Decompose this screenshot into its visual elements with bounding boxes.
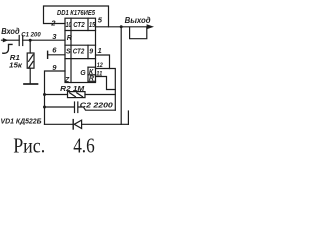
- svg-text:G: G: [80, 70, 86, 77]
- node junction C1/R1: [29, 39, 32, 42]
- capacitor C1: [18, 36, 20, 46]
- IC divider cell K: [88, 66, 96, 68]
- svg-text:15: 15: [89, 22, 95, 29]
- capacitor C2: [74, 102, 76, 113]
- svg-text:1: 1: [98, 46, 102, 55]
- wire bus to VD1: [45, 123, 73, 125]
- output pulse waveform: [130, 27, 147, 38]
- IC DD1 body: [65, 18, 96, 82]
- IC divider vertical left column: [70, 18, 72, 82]
- svg-text:6: 6: [52, 46, 57, 55]
- IC divider row1: [65, 30, 96, 32]
- node junction bus C2: [43, 106, 46, 109]
- wire VD1 to right corner: [82, 123, 129, 125]
- wire pin 2 loop over IC to output: [44, 6, 109, 27]
- wire pin 12 down to RC node: [96, 69, 116, 111]
- wire pin 1: [96, 55, 110, 69]
- resistor R1: [27, 53, 34, 68]
- wire output down to VD1: [120, 27, 122, 125]
- svg-text:4.6: 4.6: [73, 133, 95, 157]
- pin 6 terminal bar: [47, 51, 49, 58]
- wire bus to C2: [45, 106, 75, 108]
- svg-text:СТ2: СТ2: [73, 22, 85, 29]
- output arrow: [147, 24, 154, 29]
- wire pin 6: [48, 54, 65, 56]
- svg-text:15к: 15к: [9, 62, 23, 69]
- wire bus to R2: [45, 94, 68, 96]
- IC divider cell R: [88, 74, 96, 76]
- wire R1 to ground: [29, 68, 31, 83]
- wire input horizontal: [2, 39, 20, 41]
- input arrow: [3, 38, 9, 42]
- svg-text:VD1 КД522Б: VD1 КД522Б: [1, 116, 42, 125]
- svg-text:С1 200: С1 200: [21, 32, 41, 39]
- svg-text:R: R: [67, 35, 72, 42]
- svg-text:Выход: Выход: [125, 16, 151, 25]
- svg-text:10: 10: [66, 22, 72, 29]
- input common hook: [3, 44, 12, 53]
- node junction output: [120, 25, 123, 28]
- svg-text:Рис.: Рис.: [13, 133, 45, 157]
- svg-text:Вход: Вход: [1, 27, 19, 36]
- svg-text:S: S: [66, 49, 71, 56]
- svg-text:R: R: [89, 76, 94, 83]
- svg-text:9: 9: [89, 49, 93, 56]
- IC divider row2: [65, 44, 96, 46]
- IC divider vertical right column bottom: [87, 45, 89, 58]
- svg-text:СТ2: СТ2: [73, 49, 85, 56]
- svg-text:DD1 К176ИЕ5: DD1 К176ИЕ5: [57, 8, 96, 17]
- IC divider row3: [65, 58, 96, 60]
- ground: [24, 83, 38, 85]
- wire C1 to pin 3: [23, 39, 65, 41]
- IC divider vertical right column top: [87, 18, 89, 30]
- wire pin 9 to left bus: [45, 71, 66, 124]
- resistor R2: [68, 92, 86, 98]
- wire pin 11: [96, 77, 116, 90]
- node junction bus R2: [43, 93, 46, 96]
- diode VD1: [72, 120, 74, 129]
- svg-text:Z: Z: [64, 77, 70, 84]
- svg-text:С2 2200: С2 2200: [80, 100, 114, 109]
- wire C2 right to node: [78, 107, 115, 110]
- svg-text:R1: R1: [10, 55, 20, 62]
- wire R2 to common node: [85, 94, 115, 96]
- svg-text:5: 5: [98, 16, 103, 25]
- wire junction to R1: [29, 40, 31, 53]
- wire output pin 5: [96, 26, 150, 28]
